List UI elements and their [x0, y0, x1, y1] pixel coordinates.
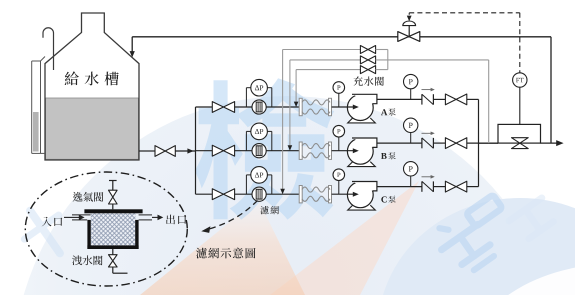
label 逸氣閥 [73, 192, 104, 202]
wire discharge B [377, 142, 422, 144]
tank label 給水槽 [65, 71, 119, 85]
wire: outlet to manifold with flow arrow [175, 148, 195, 153]
gauge P discharge B [404, 118, 418, 143]
tank 給水槽 water fill [46, 98, 139, 159]
gauge dPA [251, 79, 268, 96]
gauge P suction B [333, 125, 345, 150]
branch A: wire valve to strainer [235, 106, 300, 108]
wire: tank outlet [139, 150, 155, 152]
inset filter body crosshatch [91, 213, 136, 245]
wire: priming line 1 [294, 70, 361, 107]
watermark blue disc bottom right [378, 198, 575, 295]
check valve C [422, 175, 435, 192]
branch C: dP bypass loop [246, 175, 271, 194]
wire check to gate A [433, 98, 445, 100]
dashed signal line to FT [409, 13, 520, 73]
strainer 濾網 C [252, 187, 266, 201]
branch C: wire manifold to valve [196, 193, 213, 195]
wire discharge C [377, 186, 422, 188]
gauge dPC [251, 167, 268, 184]
branch B: suction isolation valve [212, 145, 234, 156]
discharge gate valve C [445, 181, 466, 192]
inset boundary ellipse (dash-dot) [25, 172, 187, 286]
pump B [347, 138, 377, 167]
wire: suction manifold [195, 107, 197, 194]
pump label B泵 [381, 152, 396, 159]
valve: tank outlet gate valve [155, 146, 175, 157]
watermark white corner bottom-left [0, 183, 60, 295]
branch A: dP bypass loop [246, 88, 271, 107]
wire check to gate B [433, 142, 445, 144]
pump label C泵 [381, 196, 395, 203]
flexible coupling A [299, 98, 331, 115]
wire check to gate C [433, 186, 445, 188]
inset outlet pipe + arrow [139, 215, 164, 221]
tank 給水槽 outline [45, 13, 139, 160]
flow nozzle symbol [512, 138, 529, 149]
check valve B [422, 132, 435, 149]
watermark orange ray strong (left) [140, 199, 305, 295]
label 充水閥 [353, 76, 384, 85]
check valve A [422, 88, 435, 105]
gauge dPB [251, 123, 268, 140]
control valve (recirculation) [398, 21, 420, 41]
wire coupling to pump A with arrow [332, 105, 359, 110]
caption 濾網示意圖 [196, 248, 255, 259]
actuator signal arrow [407, 13, 412, 21]
wire: branch C to collector [467, 143, 479, 187]
discharge gate valve A [445, 94, 466, 105]
inset filter walls [84, 209, 142, 249]
inset inlet pipe + arrow [64, 215, 91, 221]
transmitter FT [513, 73, 527, 87]
wire coupling to pump C with arrow [332, 192, 359, 197]
branch A: suction isolation valve [212, 102, 234, 113]
branch B: dP bypass loop [246, 131, 271, 150]
branch C: suction isolation valve [212, 189, 234, 200]
gauge P discharge C [404, 162, 418, 187]
watermark glyph faint top-right [509, 198, 557, 242]
pump C [347, 182, 377, 211]
priming valves 充水閥 [360, 46, 375, 74]
gauge P suction C [333, 169, 345, 194]
wire: top recirculation pipe [132, 36, 551, 38]
watermark glyph big right [431, 192, 522, 279]
strainer 濾網 B [252, 144, 266, 158]
wire: header through box to outlet [479, 140, 564, 146]
branch A: wire manifold to valve [196, 106, 213, 108]
branch B: wire valve to strainer [235, 150, 300, 152]
wire: branch B to header [467, 142, 498, 144]
discharge gate valve B [445, 138, 466, 149]
wire: FT tap [519, 87, 521, 124]
flow element box [498, 124, 541, 143]
watermark orange ray pale (right) [270, 181, 419, 295]
wire: priming supply from header [376, 60, 489, 143]
wire: branch A to collector [467, 99, 479, 143]
watermark glyph small left [13, 199, 77, 266]
tank vent gooseneck [43, 28, 54, 70]
label 出口 [166, 215, 186, 225]
wire coupling to pump B with arrow [332, 148, 359, 153]
wire: priming line 3 [280, 50, 360, 195]
pump label A泵 [381, 108, 396, 115]
branch C: wire valve to strainer [235, 193, 300, 195]
label 入口 [42, 217, 63, 227]
wire: right drop to header [550, 37, 552, 143]
gauge P suction A [333, 82, 345, 107]
flexible coupling C [299, 186, 331, 203]
tank level gauge [32, 57, 45, 154]
flexible coupling B [299, 142, 331, 159]
dashed pointer to inset [201, 201, 257, 233]
inset vent valve 逸氣閥 [109, 181, 118, 210]
wire: drop into tank with arrow [130, 37, 135, 58]
wire discharge A [377, 98, 422, 100]
wire: priming line 2 [288, 60, 361, 151]
wire: priming bracket [376, 50, 388, 70]
strainer 濾網 A [252, 100, 266, 114]
label 濾網 (strainer) [260, 206, 279, 214]
gauge P discharge A [404, 74, 418, 99]
branch B: wire manifold to valve [196, 150, 213, 152]
pump A [347, 94, 377, 123]
watermark white cut bottom-right corner [462, 264, 575, 295]
label 洩水閥 [72, 255, 103, 265]
watermark glyph middle 檢 [195, 78, 335, 220]
watermark swash circle [13, 96, 563, 295]
inset drain valve 洩水閥 [109, 249, 128, 273]
